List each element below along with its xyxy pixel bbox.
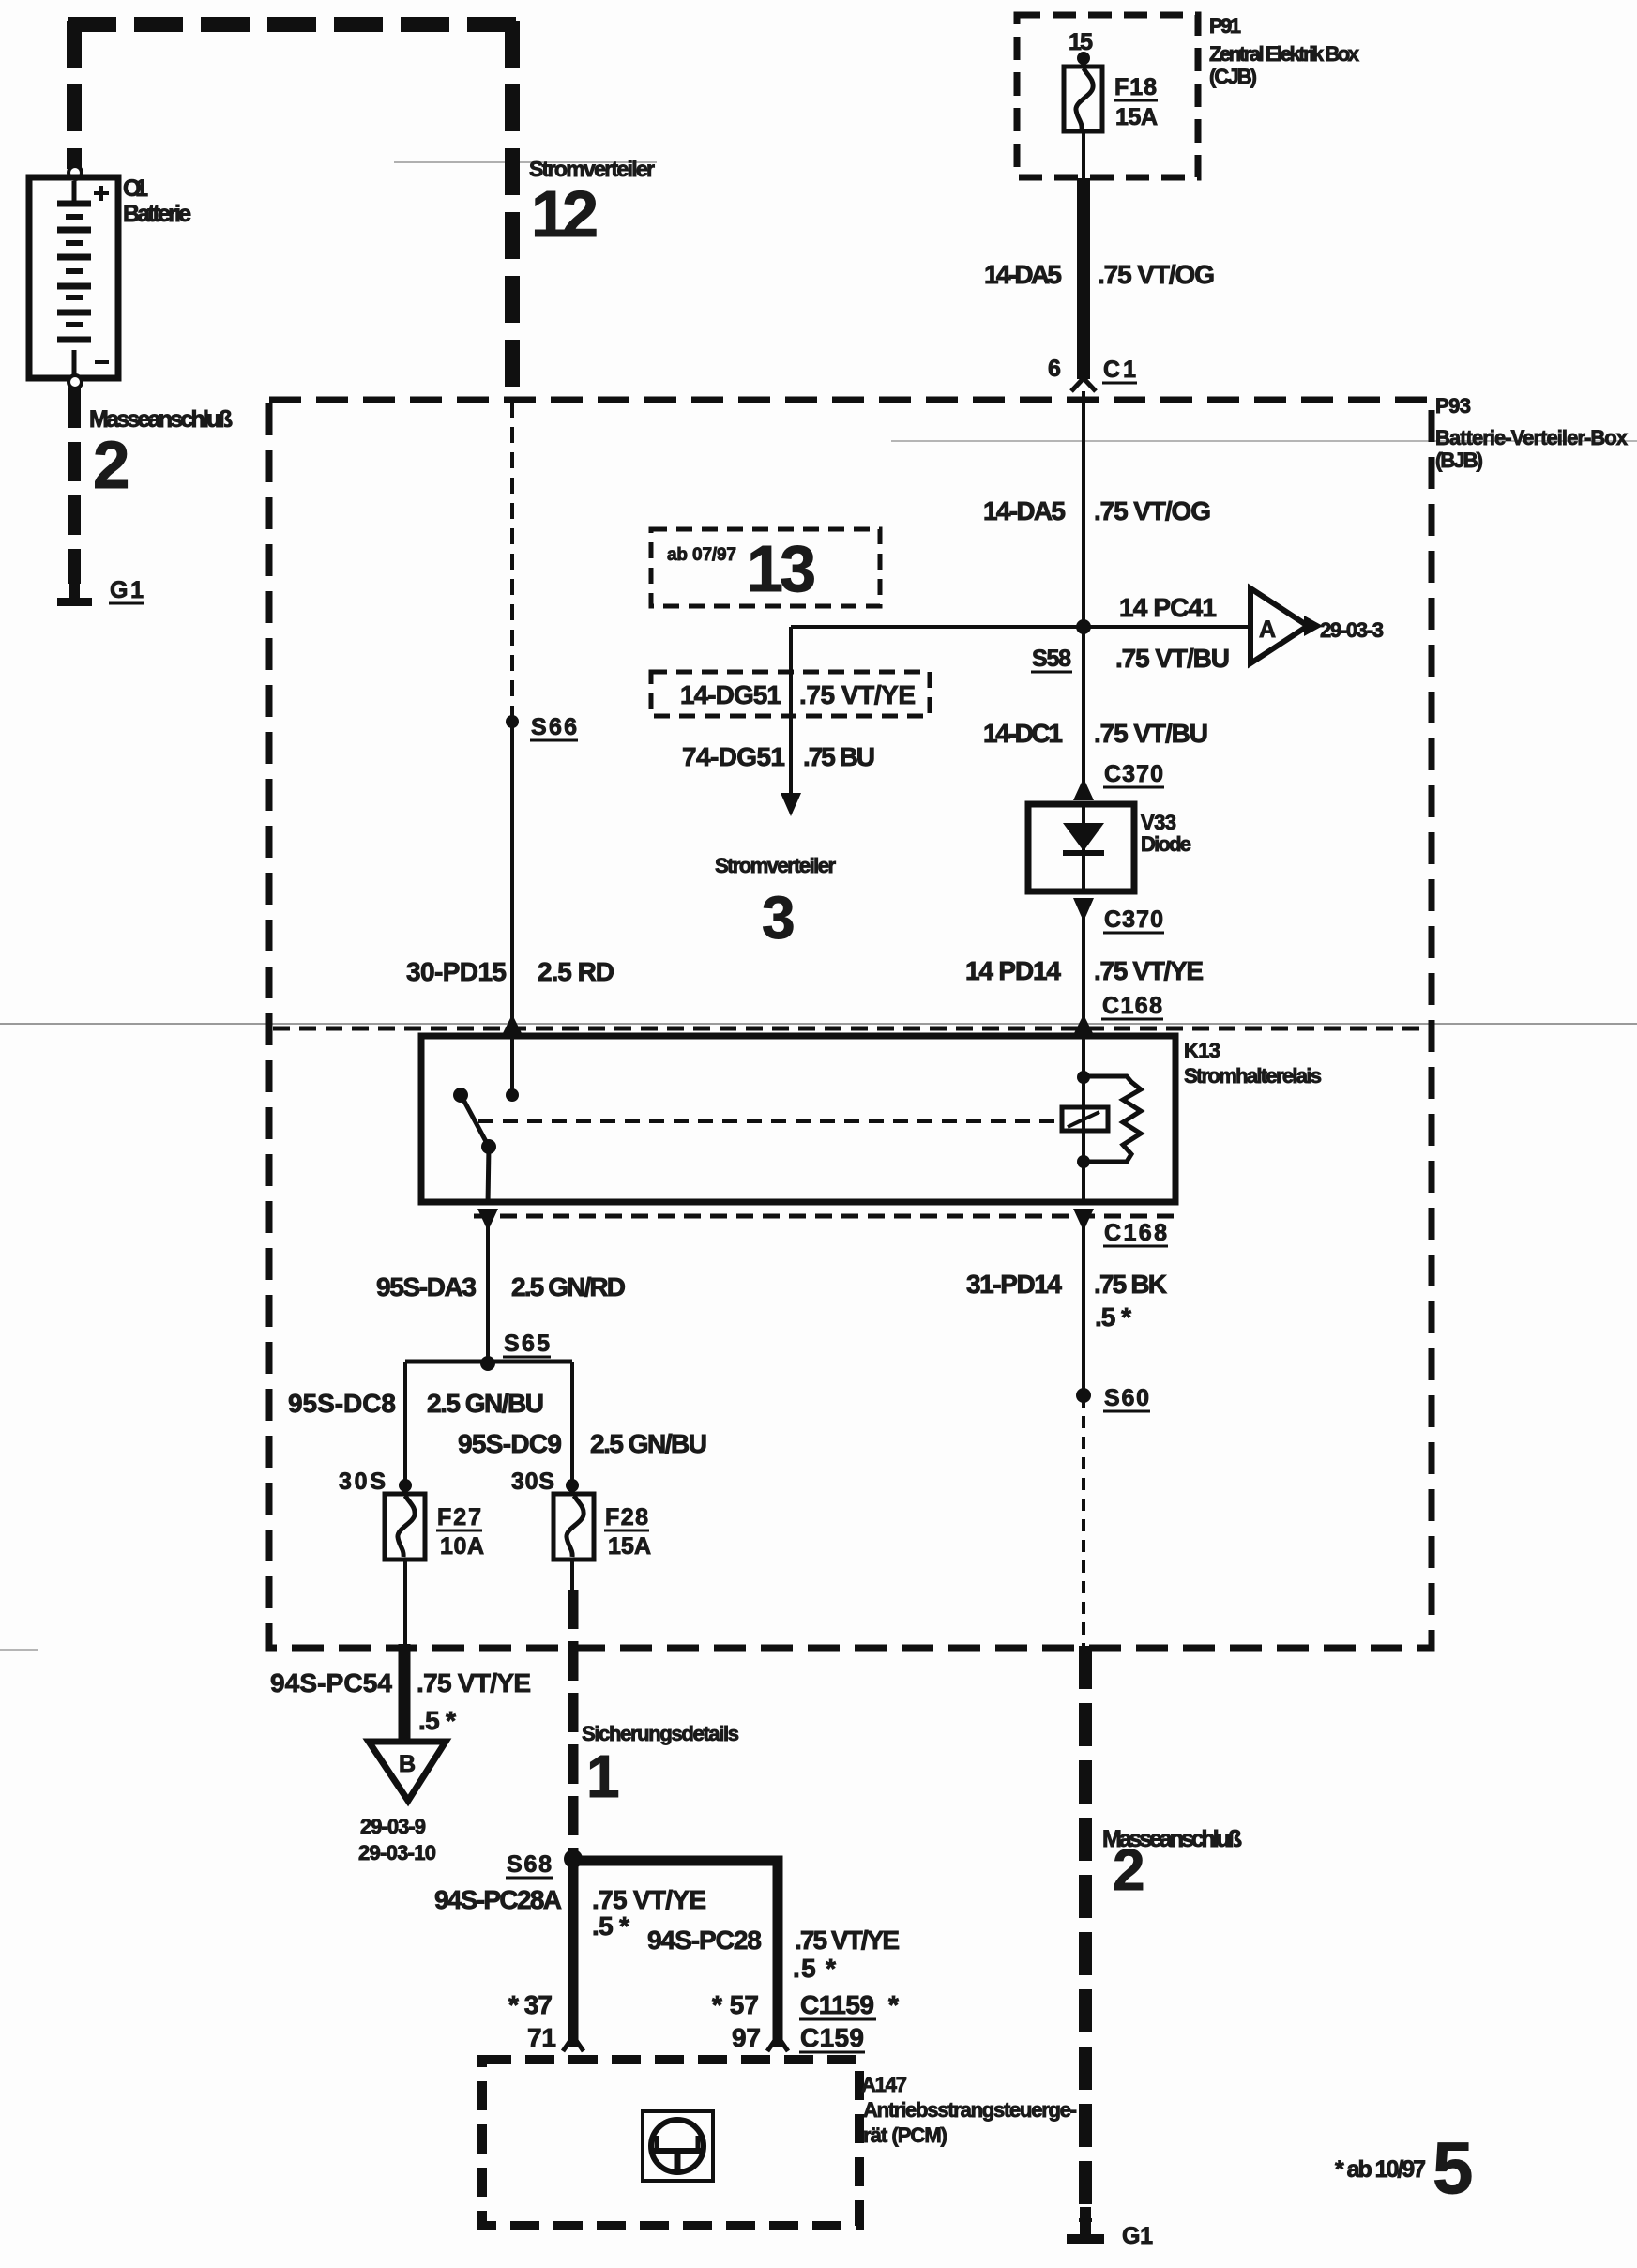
svg-text:.75 VT/YE: .75 VT/YE	[592, 1885, 706, 1914]
label 94S-PC28 .75 VT/YE .5 *	[647, 1926, 900, 1983]
box A147 Antriebsstrangsteuergeraet (PCM), thick dashed	[482, 2060, 859, 2226]
wire battery+ riser (thick dashed, left vertical)	[67, 21, 82, 169]
PCM steering-wheel icon	[643, 2111, 713, 2181]
SCAN-ARTIFACTS	[0, 162, 1637, 1650]
svg-text:2.5 GN/BU: 2.5 GN/BU	[590, 1429, 707, 1458]
svg-text:O1: O1	[123, 175, 148, 202]
svg-text:.75 VT/OG: .75 VT/OG	[1094, 496, 1211, 525]
svg-text:5: 5	[1432, 2126, 1473, 2209]
svg-text:14-DC1: 14-DC1	[983, 719, 1063, 748]
svg-text:6: 6	[1048, 356, 1061, 382]
svg-text:G1: G1	[110, 577, 144, 603]
relay actuation dashed link	[478, 1119, 1061, 1123]
wire F27 to BJB edge	[403, 1560, 407, 1646]
svg-text:.5 *: .5 *	[592, 1911, 629, 1941]
label Masseanschluss 2 (right)	[1102, 1826, 1242, 1903]
connector arrow down (left wire at lower C168)	[477, 1209, 498, 1231]
fuse F18	[1064, 67, 1102, 131]
node S60	[1076, 1385, 1150, 1411]
svg-text:12: 12	[531, 177, 599, 251]
label 14-DA5 .75 VT/OG (inside BJB)	[983, 496, 1211, 525]
svg-text:.75 VT/OG: .75 VT/OG	[1098, 260, 1215, 289]
label F27 10A	[436, 1504, 484, 1560]
svg-text:15: 15	[1069, 29, 1093, 55]
pin labels * 57 / 97 (PCM right)	[712, 1990, 761, 2052]
node S65	[480, 1331, 551, 1371]
svg-text:rät (PCM): rät (PCM)	[863, 2123, 947, 2147]
connector C1 pin 6	[1048, 356, 1137, 391]
pin labels * 37 / 71 (PCM left)	[508, 1990, 556, 2052]
connector C1159 * / C159	[799, 1990, 899, 2052]
svg-text:14 PC41: 14 PC41	[1119, 593, 1217, 622]
connector C168 dashed line (top)	[273, 1027, 1426, 1031]
wire Masseanschluss (thick dashed) BJB to ground G1	[1079, 1646, 1092, 2222]
svg-text:(BJB): (BJB)	[1435, 449, 1483, 472]
connector arrow up (right wire at C168)	[1073, 1014, 1094, 1035]
wire 14-DC1 S58 to C370	[1082, 627, 1085, 786]
label 94S-PC28A .75 VT/YE .5 *	[434, 1885, 706, 1941]
box P91 Zentral Elektrik Box (CJB), dashed	[1017, 15, 1198, 177]
label G1 (left, underlined)	[109, 577, 144, 603]
label O1 Batterie	[123, 175, 191, 227]
wire 30-PD15 S66 to relay switch	[510, 722, 514, 1092]
wire Sicherungsdetails (thick dashed) F28 to S68	[568, 1590, 579, 1854]
connector C370 (lower) with down-arrow	[1073, 898, 1164, 933]
svg-text:* 37: * 37	[508, 1990, 553, 2019]
svg-text:.75 VT/YE: .75 VT/YE	[417, 1668, 531, 1697]
svg-text:.75 VT/BU: .75 VT/BU	[1115, 644, 1230, 673]
svg-text:14-DA5: 14-DA5	[983, 496, 1066, 525]
svg-text:K13: K13	[1184, 1039, 1220, 1062]
svg-text:.75 VT/YE: .75 VT/YE	[1094, 956, 1204, 985]
relay coil winding	[1077, 1071, 1141, 1202]
label K13 Stromhalterelais	[1184, 1039, 1322, 1088]
label Stromverteiler 12	[529, 157, 655, 251]
label 31-PD14 .75 BK .5 *	[966, 1270, 1167, 1332]
label V33 Diode	[1141, 811, 1191, 856]
relay K13 Stromhalterelais box	[421, 1036, 1175, 1202]
label 14-DC1 .75 VT/BU	[983, 719, 1208, 748]
svg-text:29-03-9: 29-03-9	[360, 1815, 426, 1838]
box ab 07/97 13, dashed	[651, 529, 880, 606]
wire 14-DA5 (thick) F18 to C1	[1077, 178, 1090, 379]
svg-text:2: 2	[1113, 1838, 1144, 1903]
label 95S-DC8 2.5 GN/BU	[288, 1389, 544, 1418]
wire 95S-DA3 relay to S65	[486, 1225, 490, 1364]
svg-text:94S-PC28A: 94S-PC28A	[434, 1885, 562, 1914]
label P91 Zentral Elektrik Box (CJB)	[1209, 14, 1360, 88]
svg-text:C1: C1	[1103, 357, 1136, 383]
label S58 .75 VT/BU	[1031, 644, 1230, 673]
wire battery- to ground (thick dashed)	[68, 388, 81, 584]
connector arrow up (left wire at C168)	[502, 1014, 523, 1035]
wire 74-DG51 down-arrow to Stromverteiler 3	[781, 627, 801, 816]
svg-text:(CJB): (CJB)	[1209, 65, 1257, 88]
svg-text:15A: 15A	[608, 1533, 651, 1560]
svg-text:3: 3	[762, 884, 796, 951]
svg-text:.5 *: .5 *	[418, 1706, 456, 1735]
ground G1 (left)	[57, 578, 92, 606]
svg-text:14 PD14: 14 PD14	[965, 956, 1061, 985]
relay switch contact (input pin)	[506, 1088, 519, 1102]
svg-text:2.5 GN/RD: 2.5 GN/RD	[511, 1272, 626, 1301]
svg-text:F28: F28	[605, 1504, 648, 1530]
wire S66 branch (thin dashed from Stromverteiler)	[510, 402, 514, 717]
label 30-PD15 2.5 RD	[406, 957, 614, 986]
relay switch arm	[462, 1098, 496, 1205]
label C168 (bottom)	[1103, 1220, 1168, 1246]
svg-text:.75 VT/YE: .75 VT/YE	[799, 680, 916, 709]
wire S60 to BJB edge (thin dashed)	[1082, 1395, 1085, 1646]
svg-text:C168: C168	[1104, 1220, 1167, 1246]
svg-text:.5 *: .5 *	[793, 1954, 836, 1983]
svg-text:P93: P93	[1435, 394, 1471, 418]
label 95S-DC9 2.5 GN/BU	[458, 1429, 707, 1458]
svg-text:Batterie-Verteiler-Box: Batterie-Verteiler-Box	[1435, 426, 1629, 449]
node battery positive terminal	[68, 166, 82, 179]
battery O1	[29, 177, 118, 378]
label 94S-PC54 .75 VT/YE .5 *	[270, 1668, 531, 1735]
wire 94S-PC54 (thick) BJB edge to arrow B	[399, 1644, 411, 1742]
svg-text:Stromhalterelais: Stromhalterelais	[1184, 1064, 1322, 1088]
svg-text:.75 VT/BU: .75 VT/BU	[1094, 719, 1208, 748]
svg-text:C159: C159	[800, 2023, 864, 2052]
wire 14 PD14 diode to relay	[1082, 915, 1085, 1079]
label Stromverteiler 3	[715, 854, 836, 951]
svg-text:.75 BK: .75 BK	[1094, 1270, 1167, 1299]
svg-text:S58: S58	[1032, 646, 1071, 672]
svg-text:74-DG51: 74-DG51	[682, 742, 785, 771]
node S68	[506, 1849, 583, 1878]
svg-text:29-03-3: 29-03-3	[1320, 618, 1384, 642]
svg-text:30-PD15: 30-PD15	[406, 957, 507, 986]
label 74-DG51 .75 BU	[682, 742, 875, 771]
svg-text:V33: V33	[1141, 811, 1176, 834]
label 95S-DA3 2.5 GN/RD	[376, 1272, 626, 1301]
svg-text:95S-DC8: 95S-DC8	[288, 1389, 396, 1418]
wire split S65 to fuse branches	[405, 1362, 572, 1485]
fuse F28	[553, 1494, 594, 1560]
svg-text:F27: F27	[437, 1504, 481, 1530]
node battery negative terminal	[68, 375, 82, 388]
relay armature box on coil	[1062, 1107, 1108, 1131]
svg-text:71: 71	[527, 2023, 556, 2052]
svg-text:S66: S66	[531, 714, 577, 740]
svg-text:C370: C370	[1104, 761, 1163, 787]
svg-text:2: 2	[93, 429, 130, 503]
svg-text:2.5 GN/BU: 2.5 GN/BU	[427, 1389, 544, 1418]
svg-text:29-03-10: 29-03-10	[358, 1841, 436, 1865]
off-page arrow B to 29-03-9 / 29-03-10	[358, 1742, 446, 1865]
svg-text:Stromverteiler: Stromverteiler	[715, 854, 836, 877]
node S58 junction	[1076, 619, 1091, 634]
svg-text:B: B	[399, 1751, 416, 1777]
wire F18 to CJB edge	[1082, 131, 1085, 178]
connector arrow down (right wire at lower C168)	[1073, 1209, 1094, 1231]
svg-text:13: 13	[747, 532, 816, 605]
pin 15 of P91	[1069, 29, 1093, 68]
svg-text:C1159: C1159	[800, 1990, 874, 2019]
svg-text:94S-PC28: 94S-PC28	[647, 1926, 762, 1955]
wire 31-PD14 relay to S60	[1082, 1225, 1085, 1395]
svg-text:ab 07/97: ab 07/97	[667, 545, 736, 565]
svg-text:15A: 15A	[1115, 104, 1158, 130]
svg-text:* 57: * 57	[712, 1990, 759, 2019]
svg-text:14-DG51: 14-DG51	[680, 680, 781, 709]
wire F28 to BJB edge	[570, 1560, 574, 1590]
svg-text:30S: 30S	[339, 1469, 386, 1495]
connector C168 (top label)	[1101, 993, 1163, 1019]
wire 14-DA5 C1 to node S58	[1082, 391, 1085, 627]
label A147 Antriebsstrangsteuergeraet (PCM)	[861, 2073, 1077, 2147]
svg-text:* ab 10/97: * ab 10/97	[1335, 2156, 1426, 2183]
label F18 15A	[1114, 74, 1158, 130]
svg-text:14-DA5: 14-DA5	[984, 260, 1062, 289]
connector C168 dashed line (bottom)	[474, 1214, 1178, 1219]
node S66	[506, 714, 578, 740]
svg-text:94S-PC54: 94S-PC54	[270, 1668, 392, 1697]
label 14-DA5 .75 VT/OG (upper)	[984, 260, 1215, 289]
box P93 Batterie-Verteiler-Box (BJB), dashed	[269, 400, 1432, 1648]
svg-text:97: 97	[732, 2023, 761, 2052]
svg-text:S65: S65	[504, 1331, 550, 1357]
svg-text:30S: 30S	[511, 1469, 554, 1495]
label Masseanschluss 2 (left)	[89, 406, 233, 503]
label 14 PD14 .75 VT/YE	[965, 956, 1204, 985]
label 14 PC41	[1119, 593, 1217, 622]
label P93 Batterie-Verteiler-Box (BJB)	[1435, 394, 1629, 472]
svg-text:1: 1	[586, 1743, 620, 1810]
wire Stromverteiler drop (thick dashed, right vertical to F93)	[505, 21, 520, 398]
fuse F27	[385, 1494, 425, 1560]
label F28 15A	[604, 1504, 651, 1560]
svg-text:Zentral Elektrik Box: Zentral Elektrik Box	[1209, 42, 1360, 66]
svg-text:C168: C168	[1102, 993, 1162, 1019]
diode V33	[1028, 804, 1134, 891]
wire 14 PC41 to arrow A	[791, 625, 1250, 629]
svg-text:95S-DC9: 95S-DC9	[458, 1429, 562, 1458]
svg-text:P91: P91	[1209, 14, 1241, 38]
svg-text:Diode: Diode	[1141, 832, 1191, 856]
svg-text:.75 BU: .75 BU	[803, 742, 875, 771]
svg-text:S68: S68	[507, 1851, 552, 1878]
svg-text:S60: S60	[1104, 1385, 1149, 1411]
svg-text:F18: F18	[1114, 74, 1157, 100]
svg-text:A: A	[1259, 616, 1276, 643]
svg-text:.75 VT/YE: .75 VT/YE	[795, 1926, 900, 1955]
svg-text:C370: C370	[1104, 906, 1163, 933]
off-page arrow A to 29-03-3	[1250, 588, 1384, 663]
svg-text:G1: G1	[1122, 2223, 1153, 2249]
svg-text:10A: 10A	[440, 1533, 484, 1560]
svg-text:A147: A147	[861, 2073, 907, 2096]
svg-text:31-PD14: 31-PD14	[966, 1270, 1062, 1299]
label G1 (bottom right)	[1122, 2223, 1153, 2249]
connector C370 (upper) with up-arrow	[1073, 761, 1164, 800]
wire 94S-PC28 (thick) S68 branch to PCM pin 57/97	[579, 1861, 788, 2051]
svg-text:95S-DA3: 95S-DA3	[376, 1272, 477, 1301]
svg-text:2.5 RD: 2.5 RD	[538, 957, 614, 986]
pin 30S (F27)	[339, 1469, 412, 1495]
ground G1 (bottom right)	[1067, 2207, 1104, 2244]
wire battery+ to Stromverteiler (thick dashed, horizontal top)	[68, 17, 520, 32]
note * ab 10/97 5	[1335, 2126, 1473, 2209]
box wire label 14-DG51 .75 VT/YE, dashed	[651, 672, 930, 716]
svg-text:*: *	[888, 1990, 899, 2019]
svg-text:Antriebsstrangsteuerge-: Antriebsstrangsteuerge-	[863, 2098, 1077, 2122]
wire 94S-PC28A (thick) S68 to PCM pin 37/71	[563, 1859, 584, 2051]
svg-text:.5 *: .5 *	[1095, 1302, 1131, 1332]
relay switch fixed contact	[453, 1088, 468, 1103]
svg-text:Batterie: Batterie	[123, 201, 191, 227]
pin 30S (F28)	[511, 1469, 579, 1495]
label Sicherungsdetails 1	[582, 1722, 739, 1810]
